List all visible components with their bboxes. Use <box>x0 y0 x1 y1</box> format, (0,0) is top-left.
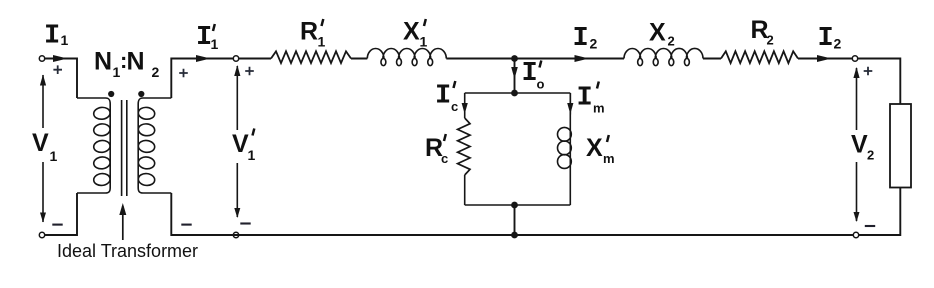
voltage arrow V1 <box>42 75 44 222</box>
resistor R2 <box>721 51 798 63</box>
svg-text:V: V <box>32 129 49 157</box>
current arrow I0p <box>511 67 518 79</box>
current arrow Icp <box>462 103 468 114</box>
current arrow I1 <box>53 55 68 62</box>
svg-text:2: 2 <box>152 64 160 80</box>
svg-text:R: R <box>300 18 318 46</box>
wire: shunt to bottom rail <box>514 205 516 235</box>
svg-text:I: I <box>522 59 538 89</box>
svg-text:I: I <box>573 24 589 54</box>
svg-text:X: X <box>649 18 666 46</box>
svg-text:1: 1 <box>211 36 219 52</box>
svg-text:V: V <box>232 130 249 158</box>
plus sign V2 <box>864 67 873 76</box>
svg-text:2: 2 <box>668 34 675 49</box>
wire: shunt top rail <box>465 92 571 94</box>
transformer core <box>122 100 127 196</box>
inductor X2 <box>624 48 703 65</box>
svg-text:c: c <box>451 99 458 114</box>
svg-text:m: m <box>593 101 605 116</box>
plus sign V1 <box>53 65 62 74</box>
svg-text:2: 2 <box>867 148 874 163</box>
svg-text:2: 2 <box>834 36 842 52</box>
load resistor <box>890 104 911 188</box>
svg-text:N: N <box>94 48 112 76</box>
svg-text:Ideal Transformer: Ideal Transformer <box>57 241 198 261</box>
plus sign V1p <box>245 67 254 76</box>
wire: R1p to X1p <box>351 58 367 60</box>
junction: top rail shunt node <box>511 55 518 62</box>
minus sign V1p <box>240 222 250 224</box>
svg-text:1: 1 <box>61 32 69 48</box>
current arrow I1p <box>196 55 211 62</box>
wire: Rc upper lead <box>464 93 466 118</box>
wire: shunt bottom rail <box>465 204 571 206</box>
svg-text:1: 1 <box>318 34 326 50</box>
current arrow Imp <box>567 103 573 114</box>
svg-text:I: I <box>818 24 834 54</box>
resistor Rcp <box>458 118 470 175</box>
inductor Xmp <box>569 93 571 205</box>
polarity dot secondary <box>138 91 144 97</box>
svg-text:X: X <box>586 134 603 162</box>
svg-text:m: m <box>603 151 615 166</box>
svg-text:V: V <box>851 131 868 159</box>
svg-text:1: 1 <box>420 34 428 50</box>
junction: shunt top <box>511 90 518 97</box>
svg-text:c: c <box>441 151 448 166</box>
wire: shunt node to X2 <box>515 58 625 60</box>
wire: Xm upper lead <box>569 93 571 115</box>
wire: X1p to shunt node <box>446 58 514 60</box>
transformer T1 secondary winding <box>138 98 171 193</box>
minus sign V2 <box>865 225 875 227</box>
svg-text:X: X <box>403 18 420 46</box>
current arrow I2 left <box>575 55 590 62</box>
wire: R2 to output terminal <box>798 58 852 60</box>
voltage arrow V1p <box>236 66 238 217</box>
wire: secondary top lead <box>171 59 233 99</box>
current arrow I2 right <box>817 55 832 62</box>
wire: terminal to load top <box>858 59 901 105</box>
svg-text:2: 2 <box>590 36 598 52</box>
svg-text:I: I <box>435 82 451 112</box>
wire: bottom rail <box>171 193 853 235</box>
svg-text:I: I <box>44 22 60 52</box>
minus sign transformer secondary <box>181 224 191 226</box>
wire: X2 to R2 <box>703 58 721 60</box>
junction: shunt bottom <box>511 202 518 209</box>
svg-text:2: 2 <box>767 33 774 48</box>
wire: primary top lead <box>45 59 77 99</box>
transformer T1 primary winding <box>77 98 110 193</box>
svg-text:N: N <box>127 48 145 76</box>
plus sign transformer secondary <box>179 69 188 78</box>
terminal: primary bottom-left <box>39 232 44 237</box>
junction: bottom rail <box>511 232 518 239</box>
inductor X1p <box>367 49 446 66</box>
terminal: V1p top node <box>233 56 238 61</box>
wire: shunt drop <box>514 59 516 94</box>
svg-text:1: 1 <box>50 148 58 164</box>
terminal: secondary top-right <box>852 56 857 61</box>
wire: top rail V1p to R1p <box>239 58 271 60</box>
terminal: primary top-left <box>39 56 44 61</box>
terminal: V1p bottom node <box>233 232 238 237</box>
wire: load bottom to rail <box>859 188 901 236</box>
terminal: secondary bottom-right <box>853 232 858 237</box>
svg-text:1: 1 <box>248 147 256 163</box>
wire: Rc lower lead <box>464 175 466 205</box>
polarity dot primary <box>108 91 114 97</box>
wire: primary bottom lead <box>45 193 77 235</box>
svg-text:o: o <box>537 77 545 92</box>
resistor R1p <box>271 51 351 63</box>
svg-text:I: I <box>577 84 593 114</box>
minus sign V1 <box>52 224 62 226</box>
voltage arrow V2 <box>856 68 858 221</box>
annotation arrow to ideal transformer <box>122 206 124 240</box>
